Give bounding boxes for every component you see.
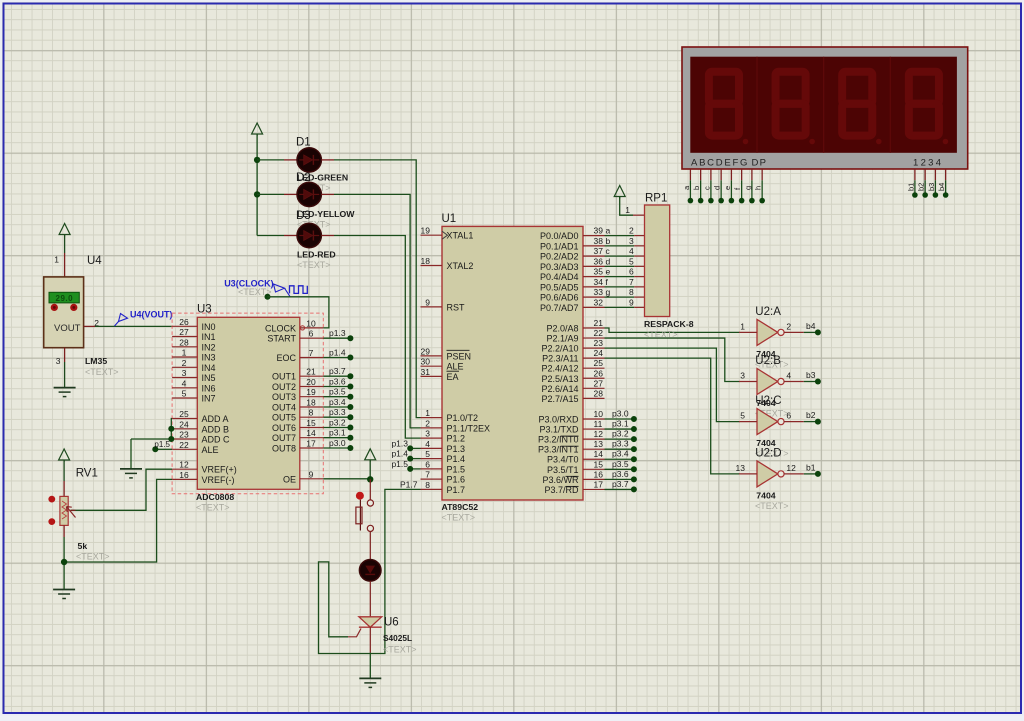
svg-text:IN7: IN7 (202, 394, 216, 404)
wire D1 cathode to U1 (321, 160, 420, 418)
RV1 wiper arrow (67, 507, 76, 518)
svg-text:OUT1: OUT1 (272, 372, 296, 382)
svg-text:p3.5: p3.5 (612, 459, 629, 469)
svg-text:28: 28 (594, 388, 604, 398)
U3 TEXT placeholder (196, 503, 230, 513)
svg-text:37: 37 (594, 246, 604, 256)
svg-text:XTAL1: XTAL1 (447, 231, 474, 241)
svg-text:P0.7/AD7: P0.7/AD7 (540, 303, 579, 313)
RV1 TEXT placeholder (76, 552, 110, 562)
U1 pin 1 (P1.0/T2) (421, 408, 479, 423)
D2 reference label (296, 172, 311, 184)
svg-text:b: b (692, 186, 701, 190)
svg-text:p1.3: p1.3 (391, 438, 408, 448)
svg-text:<TEXT>: <TEXT> (297, 260, 331, 270)
svg-text:6: 6 (309, 329, 314, 339)
svg-text:p3.3: p3.3 (612, 439, 629, 449)
svg-text:7: 7 (309, 348, 314, 358)
U4 pin 3 number (56, 356, 61, 366)
ground below U6 (359, 678, 381, 687)
U4 reference label (87, 255, 102, 267)
wire U4 VOUT to U3 IN0 (95, 325, 172, 327)
svg-text:19: 19 (306, 387, 316, 397)
svg-text:P1.1/T2EX: P1.1/T2EX (447, 423, 491, 433)
D3 value label LED-RED (297, 250, 336, 260)
U3 pin 16 (VREF(-)) (172, 470, 234, 485)
U3 pin 19 (OUT3) (272, 387, 323, 402)
svg-text:P0.6/AD6: P0.6/AD6 (540, 293, 579, 303)
svg-text:12: 12 (594, 429, 604, 439)
U1 pin 25 (P2.4/A12) (541, 358, 604, 374)
U6 reference label (384, 617, 399, 629)
U2:A value label 7404 (756, 349, 775, 359)
wire + node b4 at U2:A output (804, 321, 821, 336)
wire + node p3.7 at U3 (323, 366, 353, 379)
svg-text:P1.4: P1.4 (447, 454, 466, 464)
U2:A TEXT placeholder (755, 359, 789, 369)
svg-text:h: h (754, 186, 763, 190)
wire + node p3.2 at U1 (605, 429, 637, 443)
U1 pin 34 (P0.5/AD5) (540, 277, 605, 293)
svg-text:VREF(-): VREF(-) (202, 475, 235, 485)
svg-text:U2:B: U2:B (755, 355, 781, 367)
U1 pin 11 (P3.1/TXD) (539, 419, 604, 435)
wire D3 anode (257, 235, 297, 237)
wire + node p3.1 at U1 (605, 419, 637, 433)
svg-text:U2:C: U2:C (755, 395, 781, 407)
svg-text:1: 1 (54, 255, 59, 265)
svg-text:25: 25 (179, 409, 189, 419)
RP1 reference label (645, 193, 667, 205)
U3 value label ADC0808 (196, 492, 234, 502)
svg-text:<TEXT>: <TEXT> (383, 645, 417, 655)
svg-text:P1.5: P1.5 (447, 464, 466, 474)
svg-text:b4: b4 (806, 321, 816, 331)
svg-text:p3.5: p3.5 (329, 387, 346, 397)
svg-text:29.0: 29.0 (56, 294, 74, 303)
U1 pin 13 (P3.3/INT1) (538, 439, 605, 455)
svg-text:P0.2/AD2: P0.2/AD2 (540, 252, 579, 262)
svg-text:ADD A: ADD A (202, 414, 229, 424)
svg-text:CLOCK: CLOCK (265, 323, 296, 333)
U2:C TEXT placeholder (755, 449, 789, 459)
svg-text:P0.3/AD3: P0.3/AD3 (540, 262, 579, 272)
U2:C output pin 6 (784, 411, 804, 422)
svg-text:p3.1: p3.1 (329, 428, 346, 438)
svg-text:<TEXT>: <TEXT> (85, 367, 119, 377)
svg-text:IN0: IN0 (202, 322, 216, 332)
U3 pin 12 (VREF(+)) (172, 460, 237, 475)
U1 pin 21 (P2.0/A8) (546, 318, 604, 334)
node segment e (606, 267, 611, 277)
U1 pin 24 (P2.3/A11) (542, 348, 604, 364)
svg-text:30: 30 (421, 357, 431, 367)
svg-text:P2.3/A11: P2.3/A11 (542, 354, 578, 364)
U2:B TEXT placeholder (755, 409, 789, 419)
svg-text:p3.1: p3.1 (612, 419, 629, 429)
svg-text:D1: D1 (296, 137, 311, 149)
svg-text:34: 34 (594, 277, 604, 287)
svg-text:7404: 7404 (756, 490, 775, 500)
svg-text:24: 24 (594, 348, 604, 358)
display segment pin + node h (754, 169, 765, 203)
U4 TEXT placeholder (85, 367, 119, 377)
svg-text:g: g (606, 287, 611, 297)
U1 pin 5 (P1.4) (421, 449, 466, 464)
svg-text:ADC0808: ADC0808 (196, 492, 234, 502)
wire P2.1 to U2:B input (605, 338, 740, 381)
svg-text:5: 5 (182, 389, 187, 399)
wire + node b3 at U2:B output (804, 370, 821, 385)
svg-text:XTAL2: XTAL2 (447, 261, 474, 271)
svg-text:2: 2 (786, 321, 791, 331)
svg-text:b4: b4 (937, 183, 946, 191)
U2:B input stub pin 3 (739, 371, 757, 382)
U3 pin 6 (START) (267, 329, 323, 344)
svg-text:RV1: RV1 (76, 468, 98, 480)
U1 pin 6 (P1.5) (421, 459, 466, 474)
wire clock to U3 CLOCK (268, 297, 329, 328)
svg-text:3: 3 (56, 356, 61, 366)
svg-text:P3.4/T0: P3.4/T0 (547, 455, 579, 465)
wire + node p3.1 at U3 (323, 428, 353, 441)
ADC U3 selection box (172, 313, 323, 494)
wire ADD common to ground (130, 439, 132, 469)
svg-text:p3.4: p3.4 (612, 449, 629, 459)
wire + node p3.2 at U3 (323, 418, 353, 431)
svg-text:P1.0/T2: P1.0/T2 (447, 413, 479, 423)
wire ADD A/B/C common (131, 419, 172, 440)
svg-text:17: 17 (306, 439, 316, 449)
svg-text:OUT4: OUT4 (272, 403, 296, 413)
U1 pin 35 (P0.4/AD4) (540, 267, 605, 283)
svg-text:10: 10 (594, 409, 604, 419)
inverter U2:B 7404 (757, 369, 784, 395)
svg-text:35: 35 (594, 267, 604, 277)
svg-text:U2:A: U2:A (755, 306, 781, 318)
wire D2 anode (257, 193, 297, 195)
svg-text:U2:D: U2:D (755, 447, 781, 459)
U2:A reference label (755, 306, 781, 318)
svg-text:6: 6 (425, 459, 430, 469)
svg-text:P0.1/AD1: P0.1/AD1 (540, 241, 579, 251)
U1 pin 30 (ALE) (421, 357, 464, 372)
U3 pin 24 (ADD B) (172, 419, 229, 434)
svg-text:d: d (713, 186, 722, 190)
U1 pin 26 (P2.5/A13) (541, 368, 604, 384)
svg-text:ALE: ALE (202, 445, 219, 455)
svg-text:13: 13 (736, 463, 746, 473)
ADC U3 ADC0808 body (197, 317, 299, 489)
U3 pin 4 (IN6) (172, 378, 215, 393)
svg-text:P3.1/TXD: P3.1/TXD (539, 425, 579, 435)
svg-text:23: 23 (594, 338, 604, 348)
svg-text:1: 1 (182, 348, 187, 358)
svg-text:EA: EA (447, 372, 459, 382)
svg-text:OUT2: OUT2 (272, 382, 296, 392)
wire + node p3.3 at U3 (323, 407, 353, 420)
RP1 TEXT placeholder (644, 330, 678, 340)
U2:C value label 7404 (756, 438, 775, 448)
svg-text:20: 20 (306, 377, 316, 387)
svg-text:P1.2: P1.2 (447, 434, 466, 444)
U1 pin 8 (P1.7) (421, 480, 466, 495)
U1 TEXT placeholder (442, 513, 476, 523)
U1 pin 37 (P0.2/AD2) (540, 246, 605, 262)
U2:D input stub pin 13 (736, 463, 757, 474)
svg-text:17: 17 (594, 479, 604, 489)
svg-text:p1.5: p1.5 (154, 440, 170, 449)
wire + node b1 at U2:D output (804, 462, 821, 477)
U1 pin 29 (PSEN) (421, 346, 472, 361)
svg-text:11: 11 (594, 419, 603, 429)
wire + node p1.3 at U1 (391, 438, 420, 451)
svg-text:P2.2/A10: P2.2/A10 (541, 344, 578, 354)
svg-text:IN2: IN2 (202, 342, 216, 352)
U3 pin 26 (IN0) (172, 317, 215, 332)
svg-text:p3.6: p3.6 (329, 377, 346, 387)
ground below RV1 (53, 590, 75, 599)
wire P0.3/AD3 to RP1 pin 5 (605, 256, 645, 266)
svg-text:<TEXT>: <TEXT> (755, 501, 789, 511)
junction at D1 anode (254, 157, 260, 163)
U1 pin 23 (P2.2/A10) (541, 338, 604, 354)
svg-text:8: 8 (629, 287, 634, 297)
svg-text:D3: D3 (296, 210, 311, 222)
svg-text:22: 22 (594, 328, 604, 338)
svg-text:9: 9 (309, 469, 314, 479)
display digit pin + node b1 (906, 169, 917, 198)
net label U4(VOUT) with pointer (115, 310, 173, 327)
U3 pin 25 (ADD A) (172, 409, 228, 424)
wire + node b2 at U2:C output (804, 410, 821, 425)
U1 pin 4 (P1.3) (421, 439, 466, 454)
wire P0.0/AD0 to RP1 pin 2 (605, 226, 645, 236)
svg-text:U6: U6 (384, 617, 399, 629)
U1 pin 27 (P2.6/A14) (541, 378, 604, 394)
svg-text:VREF(+): VREF(+) (202, 465, 237, 475)
svg-text:ADD B: ADD B (202, 424, 230, 434)
svg-text:c: c (702, 186, 711, 190)
svg-text:S4025L: S4025L (383, 633, 412, 643)
U1 pin 10 (P3.0/RXD) (538, 409, 604, 425)
U1 pin 3 (P1.2) (421, 429, 466, 444)
svg-text:<TEXT>: <TEXT> (76, 552, 110, 562)
svg-text:OUT5: OUT5 (272, 413, 296, 423)
U1 value label AT89C52 (442, 502, 479, 512)
svg-text:P2.5/A13: P2.5/A13 (541, 374, 578, 384)
svg-text:1: 1 (425, 408, 430, 418)
svg-text:OE: OE (283, 474, 296, 484)
junction OE / power / button (367, 476, 373, 482)
svg-text:AT89C52: AT89C52 (442, 502, 479, 512)
U1 pin 9 (RST) (421, 297, 466, 312)
svg-text:27: 27 (594, 378, 604, 388)
svg-text:22: 22 (179, 440, 189, 450)
wire RP1 pin1 to power (620, 197, 645, 216)
svg-text:3: 3 (740, 371, 745, 381)
U1 pin 17 (P3.7/RD) (544, 479, 604, 495)
svg-text:DP: DP (752, 158, 768, 169)
power symbol above RP1 (614, 186, 625, 199)
svg-text:p3.3: p3.3 (329, 407, 346, 417)
U2:B output pin 4 (784, 371, 804, 382)
U3 pin 14 (OUT7) (272, 428, 323, 443)
U1 pin 19 (XTAL1) (421, 226, 474, 241)
wire D1 anode (257, 159, 297, 161)
wire LED supply column (256, 134, 258, 236)
svg-text:ABCDEFG: ABCDEFG (691, 158, 749, 169)
svg-text:e: e (606, 267, 611, 277)
node segment b (606, 236, 611, 246)
U2:A output pin 2 (784, 321, 804, 332)
svg-text:8: 8 (425, 480, 430, 490)
svg-text:D2: D2 (296, 172, 311, 184)
wire U3 OE to button junction (323, 478, 370, 480)
junction ADD C (168, 436, 174, 442)
svg-text:U4: U4 (87, 255, 102, 267)
RP1 value label RESPACK-8 (644, 319, 694, 329)
U3 pin 17 (OUT8) (272, 439, 323, 454)
svg-text:26: 26 (594, 368, 604, 378)
U3 pin 5 (IN7) (172, 389, 215, 404)
svg-text:3: 3 (182, 368, 187, 378)
U3 pin 1 (IN3) (172, 348, 215, 363)
indicator LED at U6 (359, 560, 381, 582)
svg-text:1: 1 (740, 321, 745, 331)
svg-text:16: 16 (179, 470, 189, 480)
D2 value label LED-YELLOW (297, 209, 355, 219)
U1 pin 28 (P2.7/A15) (541, 388, 604, 404)
sensor U4 LM35 body (44, 277, 84, 348)
svg-text:p3.0: p3.0 (329, 438, 346, 448)
svg-text:1234: 1234 (913, 158, 943, 169)
svg-text:9: 9 (629, 297, 634, 307)
wire power to button junction (369, 460, 371, 480)
wire + node p3.6 at U1 (605, 469, 637, 483)
svg-text:P2.1/A9: P2.1/A9 (546, 334, 578, 344)
D1 TEXT placeholder (297, 183, 331, 193)
svg-text:5: 5 (629, 256, 634, 266)
svg-text:ADD C: ADD C (202, 435, 231, 445)
svg-text:19: 19 (421, 226, 431, 236)
U4 pin 3 to ground (64, 348, 66, 388)
U3 reference label (197, 304, 212, 316)
wire + node p1.5 at U1 (391, 459, 420, 472)
wire + node p1.5 at U3 ALE (152, 440, 172, 453)
svg-text:P2.0/A8: P2.0/A8 (546, 324, 578, 334)
wire P0.2/AD2 to RP1 pin 4 (605, 246, 645, 256)
svg-text:14: 14 (594, 449, 604, 459)
power symbol above U4 (59, 224, 70, 237)
wire + node p3.7 at U1 (605, 479, 637, 493)
svg-text:p3.7: p3.7 (612, 479, 629, 489)
U1 pin 12 (P3.2/INT0) (538, 429, 605, 445)
svg-text:LED-RED: LED-RED (297, 250, 336, 260)
D1 reference label (296, 137, 311, 149)
U3 pin 23 (ADD C) (172, 430, 230, 445)
U2:B value label 7404 (756, 398, 775, 408)
svg-text:U4(VOUT): U4(VOUT) (130, 310, 173, 320)
wire + node p3.4 at U3 (323, 397, 353, 410)
svg-text:12: 12 (786, 463, 796, 473)
svg-text:31: 31 (421, 367, 431, 377)
U1 pin 33 (P0.6/AD6) (540, 287, 605, 303)
svg-text:OUT3: OUT3 (272, 392, 296, 402)
svg-text:28: 28 (179, 337, 189, 347)
svg-text:p1.5: p1.5 (391, 459, 408, 469)
U2:D output pin 12 (784, 463, 804, 474)
svg-text:15: 15 (594, 459, 604, 469)
RV1 bottom pin wire (63, 525, 65, 589)
wire + node p3.0 at U1 (605, 409, 637, 423)
U6 value label S4025L (383, 633, 412, 643)
svg-text:p3.4: p3.4 (329, 397, 346, 407)
RV1 reference label (76, 468, 98, 480)
svg-text:p3.2: p3.2 (329, 418, 346, 428)
wire U3 VREF(-) to RV1 bottom (64, 479, 172, 562)
wire P0.1/AD1 to RP1 pin 3 (605, 236, 645, 246)
U1 pin 18 (XTAL2) (421, 256, 474, 271)
wire + node p3.3 at U1 (605, 439, 637, 453)
RV1 top pin wire (63, 460, 65, 496)
wire U4 pin1 to power (64, 235, 66, 278)
wire D2 cathode to U1 (321, 194, 420, 428)
wire + node p1.4 at U1 (391, 449, 420, 462)
svg-text:29: 29 (421, 346, 431, 356)
svg-text:VOUT: VOUT (54, 323, 81, 334)
wire U1 P1.7 to U6 gate (319, 489, 421, 653)
node segment f (606, 277, 609, 287)
RV1 body dots (48, 496, 55, 525)
display segment pin + node a (682, 169, 693, 203)
svg-text:b1: b1 (906, 183, 915, 191)
svg-text:b3: b3 (927, 183, 936, 191)
display segment pin + node e (723, 169, 734, 203)
U1 pin 2 (P1.1/T2EX) (421, 418, 491, 433)
svg-text:P1.7: P1.7 (447, 485, 466, 495)
svg-text:4: 4 (182, 378, 187, 388)
ground below U4 (54, 388, 76, 397)
svg-text:EOC: EOC (276, 353, 296, 363)
node segment g (606, 287, 611, 297)
U3 pin 20 (OUT2) (272, 377, 323, 392)
LED D3 (297, 223, 321, 247)
svg-text:10: 10 (306, 318, 316, 328)
svg-text:38: 38 (594, 236, 604, 246)
svg-text:5: 5 (425, 449, 430, 459)
svg-text:U1: U1 (442, 213, 457, 225)
U4 pin 1 number (54, 255, 59, 265)
wire P0.7/AD7 to RP1 pin 9 (605, 297, 645, 307)
svg-text:IN5: IN5 (202, 373, 216, 383)
U6 TEXT placeholder (383, 645, 417, 655)
svg-text:<TEXT>: <TEXT> (442, 513, 476, 523)
power symbol above LED column (252, 123, 263, 136)
U2:D reference label (755, 447, 781, 459)
wire P0.6/AD6 to RP1 pin 8 (605, 287, 645, 297)
junction RV1 bottom / VREF(-) (61, 559, 67, 565)
display segment pin + node b (692, 169, 703, 203)
svg-text:p1.3: p1.3 (329, 328, 346, 338)
MCU U1 AT89C52 body (442, 226, 583, 500)
svg-text:p3.7: p3.7 (329, 366, 346, 376)
U1 pin 15 (P3.5/T1) (547, 459, 605, 475)
U1 pin 38 (P0.1/AD1) (540, 236, 605, 252)
svg-text:25: 25 (594, 358, 604, 368)
U1 pin 16 (P3.6/WR) (542, 469, 604, 485)
svg-text:27: 27 (179, 327, 189, 337)
